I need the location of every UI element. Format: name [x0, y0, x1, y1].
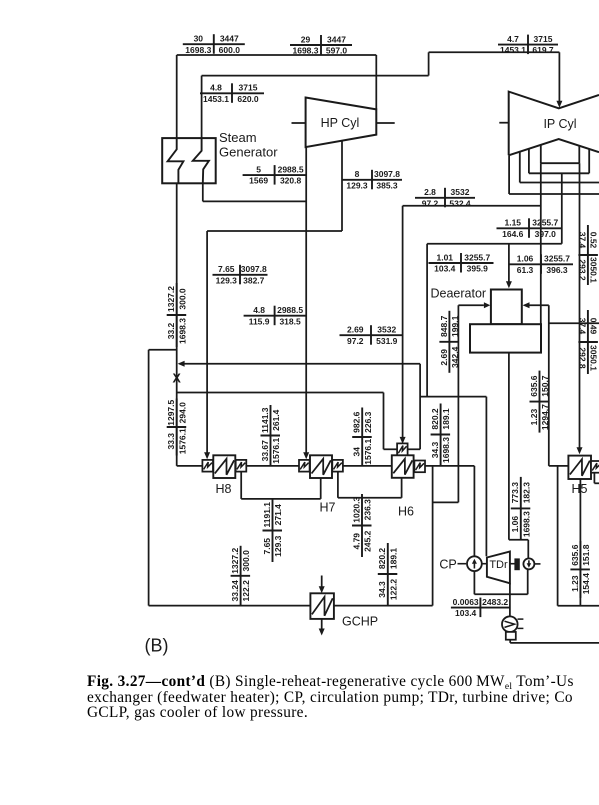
steam generator box: [162, 138, 216, 183]
wire downcomer jog: [509, 539, 528, 541]
svg-text:(B): (B): [145, 636, 169, 656]
label 1.23|635.6 dr: [529, 371, 550, 433]
svg-text:982.6: 982.6: [352, 411, 362, 433]
svg-text:1297.5: 1297.5: [166, 399, 176, 425]
svg-text:385.3: 385.3: [376, 180, 398, 190]
label 7.65|1191.1: [262, 499, 283, 562]
svg-text:597.0: 597.0: [326, 46, 348, 56]
arrow into H8 steam inlet: [204, 452, 210, 459]
svg-text:1576.1: 1576.1: [363, 438, 373, 464]
label 34|982.6: [352, 408, 373, 467]
svg-text:3097.8: 3097.8: [241, 264, 267, 274]
svg-text:189.1: 189.1: [388, 548, 398, 570]
svg-text:0.49: 0.49: [589, 318, 599, 335]
svg-text:122.2: 122.2: [388, 579, 398, 601]
svg-text:1576.1: 1576.1: [271, 437, 281, 463]
svg-text:33.3: 33.3: [166, 433, 176, 450]
wire left condensate riser: [148, 350, 150, 606]
label 2.69|848.7: [439, 311, 460, 373]
svg-text:97.2: 97.2: [347, 336, 364, 346]
pump CP circle: [467, 556, 482, 571]
svg-text:3255.7: 3255.7: [532, 218, 558, 228]
svg-text:261.4: 261.4: [271, 409, 281, 431]
svg-text:7.65: 7.65: [262, 538, 272, 555]
svg-text:3447: 3447: [327, 34, 346, 44]
svg-text:H6: H6: [398, 505, 414, 519]
heater H6: [397, 443, 408, 455]
wire deaerator right feed: [529, 304, 549, 306]
wire hot reheat top run to IP: [429, 51, 560, 53]
svg-text:1.23: 1.23: [529, 409, 539, 426]
label 4.7|3715: [498, 34, 558, 55]
wire hot reheat horizontal from boiler: [202, 75, 429, 77]
wire H6 steam drop: [402, 206, 404, 439]
IP exhaust hood rect2: [528, 149, 530, 174]
wire H6 drain loop bottom: [433, 501, 459, 503]
svg-text:2988.5: 2988.5: [278, 165, 304, 175]
svg-text:1327.2: 1327.2: [166, 286, 176, 312]
wire drop into booster pump: [527, 540, 529, 559]
svg-text:3097.8: 3097.8: [374, 169, 400, 179]
wire H7 drain run: [338, 497, 402, 499]
svg-text:1453.1: 1453.1: [500, 45, 526, 55]
CP label dash: [458, 563, 467, 565]
wire from right edge into drop: [549, 322, 599, 324]
label 33.24|1327.2: [230, 546, 251, 606]
svg-text:103.4: 103.4: [455, 608, 477, 618]
label 1.23|635.6 h5: [570, 541, 591, 598]
svg-text:2988.5: 2988.5: [277, 305, 303, 315]
svg-text:3715: 3715: [534, 34, 553, 44]
label 0.0063|2483.2: [451, 597, 510, 618]
svg-text:294.0: 294.0: [177, 402, 187, 424]
wire H5 drain return riser: [557, 466, 559, 606]
svg-text:1020.3: 1020.3: [351, 496, 361, 522]
label 4.8|3715: [200, 83, 264, 104]
wire H5 drain down: [579, 479, 581, 606]
svg-text:635.6: 635.6: [529, 375, 539, 397]
wire hot reheat riser: [428, 52, 430, 75]
svg-text:IP Cyl: IP Cyl: [543, 117, 576, 131]
wire TDr supply drop to turbine drive: [485, 397, 487, 557]
wire extraction run to H8: [207, 230, 342, 232]
svg-text:Generator: Generator: [219, 145, 278, 160]
label 33.67|1141.3: [260, 405, 281, 466]
svg-text:1.15: 1.15: [504, 218, 521, 228]
svg-text:619.7: 619.7: [532, 45, 554, 55]
svg-text:34: 34: [352, 447, 362, 457]
wire H5 feedwater line: [549, 465, 599, 467]
arrow into deaerator dome right: [523, 302, 530, 308]
wire H7 drain down: [337, 472, 339, 498]
TDr shaft to CP: [482, 563, 487, 565]
svg-text:33.2: 33.2: [166, 322, 176, 339]
svg-text:164.6: 164.6: [502, 229, 524, 239]
svg-text:37.4: 37.4: [577, 232, 587, 249]
wire feedwater drop to CP: [473, 466, 475, 557]
wire bottom right condensate run: [558, 605, 599, 607]
svg-text:2.69: 2.69: [439, 349, 449, 366]
svg-text:1569: 1569: [249, 176, 268, 186]
svg-text:773.3: 773.3: [510, 482, 520, 504]
svg-text:820.2: 820.2: [377, 548, 387, 570]
svg-text:34.3: 34.3: [377, 581, 387, 598]
wire extraction return run with arrow to riser: [180, 363, 421, 365]
gas arrow out of GCHP: [321, 619, 323, 630]
wire CP/booster bottom loop right: [527, 569, 529, 594]
svg-text:3532: 3532: [377, 325, 396, 335]
label 2.69|3532: [340, 325, 403, 346]
label 5|2988.5: [243, 165, 307, 186]
wire riser branch run (to H6 wrap left): [177, 392, 384, 394]
label 29|3447: [290, 34, 352, 55]
wire left condensate riser top corner: [149, 349, 177, 351]
wire H6 wrap bottom right segment: [408, 448, 421, 450]
wire H6 wrap bottom left segment: [384, 448, 398, 450]
svg-text:1698.3: 1698.3: [177, 318, 187, 344]
label 2.8|3532: [415, 187, 475, 208]
deaerator dome: [491, 290, 522, 325]
label 33.2|1327.2: [166, 283, 187, 347]
svg-text:292.8: 292.8: [577, 347, 587, 369]
figure caption: [87, 674, 574, 721]
svg-text:H8: H8: [216, 482, 232, 496]
arrow into H6 steam inlet: [400, 437, 406, 444]
svg-text:97.2: 97.2: [422, 198, 439, 208]
wire H7 drain rise into H6: [401, 478, 403, 498]
svg-text:820.2: 820.2: [430, 408, 440, 430]
arrow into H5 steam inlet: [577, 447, 583, 454]
svg-text:300.0: 300.0: [241, 550, 251, 572]
gas arrow into GCHP: [321, 576, 323, 588]
svg-text:245.2: 245.2: [363, 530, 373, 552]
svg-text:1698.3: 1698.3: [185, 45, 211, 55]
svg-text:3255.7: 3255.7: [544, 254, 570, 264]
svg-text:382.7: 382.7: [243, 275, 265, 285]
label 1.15|3255.7: [497, 218, 562, 239]
wire H6 wrap right branch vertical: [419, 364, 421, 450]
wire H6 wrap left vertical: [383, 393, 385, 450]
svg-text:3447: 3447: [220, 34, 239, 44]
svg-text:154.4: 154.4: [581, 573, 591, 595]
svg-text:2483.2: 2483.2: [482, 597, 508, 607]
svg-text:X: X: [173, 372, 182, 386]
wire TDr supply drop from header: [426, 244, 428, 397]
wire cold reheat horizontal: [203, 200, 306, 202]
svg-text:4.79: 4.79: [351, 533, 361, 550]
label 34.3|820.2 cond: [377, 543, 398, 605]
GCLP stubs: [518, 618, 524, 620]
wire deaerator steam feed: [508, 244, 510, 282]
heating bolt right: [193, 139, 209, 184]
svg-text:4.8: 4.8: [210, 83, 222, 93]
svg-text:1.06: 1.06: [517, 254, 534, 264]
wire GCLP outlet drop: [509, 640, 511, 643]
svg-text:129.3: 129.3: [216, 275, 238, 285]
svg-text:395.9: 395.9: [467, 264, 489, 274]
svg-text:532.4: 532.4: [449, 198, 471, 208]
svg-text:H5: H5: [572, 482, 588, 496]
wire condensate run from GCLP to right edge: [510, 642, 599, 644]
svg-text:122.2: 122.2: [241, 580, 251, 602]
wire hot reheat drop into IP Cyl: [558, 52, 560, 102]
wire feedwater line through heaters: [177, 465, 475, 467]
label 4.79|1020.3: [351, 494, 372, 557]
heater H5: [568, 456, 591, 479]
booster pump circle: [523, 558, 534, 569]
IP exhaust hood rect4: [508, 155, 510, 194]
svg-text:129.3: 129.3: [346, 180, 368, 190]
svg-text:320.8: 320.8: [280, 176, 302, 186]
wire bottom condensate run: [149, 605, 433, 607]
GCLP gas cooler of low pressure: [502, 616, 518, 632]
svg-text:Steam: Steam: [219, 130, 257, 145]
wire deaerator spray feed with arrow: [458, 304, 484, 306]
arrow into H7 steam inlet: [303, 452, 309, 459]
svg-text:342.4: 342.4: [450, 346, 460, 368]
wire H8 steam drop: [206, 231, 208, 453]
svg-text:293.2: 293.2: [577, 259, 587, 281]
svg-text:115.9: 115.9: [249, 316, 270, 326]
svg-text:3715: 3715: [239, 83, 258, 93]
HP shaft left: [292, 122, 306, 124]
heating bolt left: [168, 139, 184, 184]
wire IP extraction P2: [561, 173, 563, 244]
svg-text:318.5: 318.5: [279, 316, 301, 326]
wire IP extraction P3 to H5: [579, 163, 581, 447]
svg-text:1576.1: 1576.1: [177, 428, 187, 454]
svg-text:29: 29: [301, 34, 311, 44]
svg-text:4.7: 4.7: [507, 34, 519, 44]
wire CP/booster bottom loop left: [473, 571, 475, 594]
svg-text:0.0063: 0.0063: [453, 597, 479, 607]
wire main steam header (top, 30/29 bar line): [177, 54, 377, 56]
label 4.8|2988.5: [244, 305, 306, 326]
label 30|3447: [183, 34, 245, 55]
arrow into boiler feed riser: [178, 361, 185, 367]
wire boiler feed riser (left main riser): [176, 55, 178, 466]
svg-text:1.06: 1.06: [510, 516, 520, 533]
wire TDr exhaust to GCLP: [509, 583, 511, 616]
svg-text:397.0: 397.0: [535, 229, 557, 239]
wire condensate riser from GCHP to feed line: [432, 466, 434, 606]
heater H8: [202, 460, 213, 472]
svg-text:151.8: 151.8: [581, 544, 591, 566]
svg-text:182.3: 182.3: [521, 482, 531, 504]
svg-text:848.7: 848.7: [439, 315, 449, 337]
label 0.49|3050.1: [577, 310, 598, 374]
label 33.3|1297.5: [166, 399, 187, 456]
svg-text:129.3: 129.3: [273, 535, 283, 557]
svg-text:531.9: 531.9: [376, 336, 398, 346]
svg-text:1698.3: 1698.3: [521, 511, 531, 537]
svg-text:TDr: TDr: [489, 559, 508, 571]
svg-text:1141.3: 1141.3: [260, 407, 270, 433]
label 1.06|773.3: [510, 477, 531, 540]
svg-text:300.0: 300.0: [177, 288, 187, 310]
wire IP extraction (2.8 bar) run: [403, 205, 541, 207]
booster pump stub: [534, 563, 540, 565]
wire reheat pipe through steam generator: [201, 76, 203, 149]
svg-text:103.4: 103.4: [434, 264, 456, 274]
wire H5 right drain stub: [593, 473, 595, 483]
svg-text:1453.1: 1453.1: [203, 94, 229, 104]
svg-text:2.8: 2.8: [424, 187, 436, 197]
arrow into deaerator dome left: [484, 302, 490, 308]
svg-text:150.7: 150.7: [540, 375, 550, 397]
svg-text:1698.3: 1698.3: [441, 437, 451, 463]
svg-text:271.4: 271.4: [273, 504, 283, 526]
svg-text:3532: 3532: [451, 187, 470, 197]
svg-text:0.52: 0.52: [589, 232, 599, 249]
wire deaerator drain drop: [457, 305, 459, 502]
label 7.65|3097.8: [213, 264, 268, 285]
svg-text:199.1: 199.1: [450, 315, 460, 337]
svg-text:1191.1: 1191.1: [262, 502, 272, 528]
svg-text:236.3: 236.3: [363, 499, 373, 521]
IP Cyl bottom edge: [509, 139, 599, 155]
label 1.01|3255.7: [429, 252, 494, 273]
wire TDr supply horizontal: [420, 396, 486, 398]
svg-text:8: 8: [355, 169, 360, 179]
op HP Cyl turbine: [306, 98, 377, 148]
svg-text:3255.7: 3255.7: [464, 252, 490, 262]
turbine drive TDr: [487, 552, 510, 584]
svg-text:7.65: 7.65: [218, 264, 235, 274]
svg-text:CP: CP: [439, 558, 456, 572]
svg-text:30: 30: [194, 34, 204, 44]
svg-text:1.01: 1.01: [436, 252, 453, 262]
op IP Cyl turbine (double flow, cropped right): [509, 92, 599, 156]
wire main steam drop into HP Cyl: [375, 55, 377, 109]
svg-text:1.23: 1.23: [570, 575, 580, 592]
svg-text:2.69: 2.69: [347, 325, 364, 335]
label 1.06|3255.7: [509, 254, 573, 275]
svg-text:37.4: 37.4: [577, 318, 587, 335]
svg-text:1698.3: 1698.3: [293, 46, 319, 56]
wire H8 drain run: [241, 498, 321, 500]
svg-text:HP Cyl: HP Cyl: [321, 116, 360, 130]
svg-text:635.6: 635.6: [570, 544, 580, 566]
IP exhaust hood rect3: [519, 152, 521, 183]
heater H7: [299, 460, 310, 472]
svg-text:1327.2: 1327.2: [230, 548, 240, 574]
coupling block: [515, 559, 519, 569]
wire HP exhaust pipe down to H7: [305, 147, 307, 452]
svg-text:3050.1: 3050.1: [589, 345, 599, 371]
wire H8 drain rise into H7: [320, 478, 322, 499]
svg-text:33.24: 33.24: [230, 580, 240, 602]
svg-text:61.3: 61.3: [517, 265, 534, 275]
arrow into IP Cyl inlet: [556, 101, 562, 108]
svg-text:620.0: 620.0: [237, 94, 259, 104]
wire right condensate drop to H5 feed line: [548, 305, 550, 466]
svg-text:Deaerator: Deaerator: [431, 287, 487, 301]
svg-text:1294.7: 1294.7: [540, 404, 550, 430]
svg-text:5: 5: [256, 165, 261, 175]
wire CP/booster bottom loop run: [474, 593, 527, 595]
svg-text:396.3: 396.3: [546, 265, 568, 275]
svg-text:33.67: 33.67: [260, 440, 270, 462]
svg-text:GCHP: GCHP: [342, 615, 378, 629]
svg-text:189.1: 189.1: [441, 408, 451, 430]
arrow into deaerator dome top: [506, 281, 512, 288]
wire HP extraction pipe (8 bar): [341, 141, 343, 231]
wire H8 drain down: [240, 472, 242, 499]
label 34.3|820.2 fw: [430, 404, 451, 466]
svg-text:3050.1: 3050.1: [589, 257, 599, 283]
svg-text:600.0: 600.0: [219, 45, 241, 55]
svg-text:H7: H7: [320, 501, 336, 515]
IP exhaust hood rect1: [540, 145, 542, 163]
svg-text:34.3: 34.3: [430, 441, 440, 458]
HP shaft right: [376, 122, 394, 124]
wire IP extraction header at deaerator level: [427, 243, 562, 245]
deaerator tank: [470, 324, 541, 352]
svg-text:4.8: 4.8: [253, 305, 265, 315]
wire IP extraction P1 to deaerator: [540, 163, 542, 324]
label 0.52|3050.1: [577, 225, 598, 285]
GCLP pedestal: [506, 632, 516, 640]
wire deaerator downcomer: [508, 353, 510, 540]
svg-text:226.3: 226.3: [363, 411, 373, 433]
label 8|3097.8: [342, 169, 402, 190]
IP shaft left: [499, 122, 508, 124]
